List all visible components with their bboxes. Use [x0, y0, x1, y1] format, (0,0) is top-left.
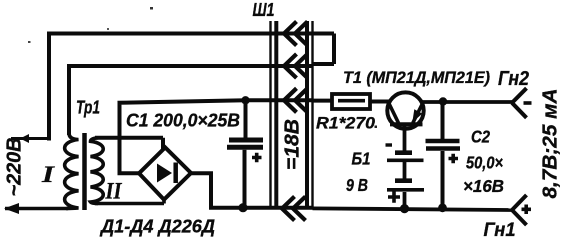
bridge rectifier D1-D4 diamond [139, 147, 191, 199]
node : junction dot C2 bottom [438, 203, 447, 212]
resistor R1 inner bar [338, 99, 365, 103]
connector Sh1 left thin line [269, 21, 271, 207]
capacitor C1 bottom lead [243, 150, 247, 208]
wire : mains top arrowhead [20, 134, 29, 143]
transistor T1 emitter diagonal with arrow [413, 103, 423, 124]
transistor T1 base bar [390, 122, 423, 126]
wire : bottom rail from connector to jack Gn1 [313, 208, 513, 210]
wire : R1 to transistor collector [370, 100, 389, 104]
connector Sh1 right thin line [311, 21, 313, 207]
battery B1 plus sign [388, 191, 400, 203]
connector Sh1 pin arrow row4 [282, 197, 306, 221]
svg-text:С1 200,0×25В: С1 200,0×25В [126, 111, 240, 131]
capacitor C2 bottom lead [441, 151, 445, 209]
wire : mains bottom arrowhead [4, 203, 19, 214]
transistor T1 circle [387, 92, 423, 128]
wire : bridge bottom corner stub [162, 198, 166, 204]
battery B1 cell2 long plate [387, 188, 424, 192]
wire : mains top lead with arrow to corner [11, 137, 49, 140]
svg-text:~220В: ~220В [4, 138, 26, 197]
wire : bridge left corner feed [118, 171, 141, 175]
node : junction dot C2 top [439, 97, 447, 105]
speck [107, 28, 109, 30]
wire : jumper loop joining pins 1 and 2 on plug side [313, 34, 335, 65]
wire : bridge minus riser x119.5 and top rail row3 [118, 100, 314, 175]
svg-text:×16В: ×16В [463, 176, 504, 196]
capacitor C2 plates [426, 139, 460, 144]
wire : secondary bottom to bridge AC bottom [95, 202, 164, 206]
transistor T1 base lead down [403, 126, 407, 151]
jack Gn1 socket symbol [512, 195, 527, 225]
capacitor C1 top lead [244, 100, 248, 138]
wire : secondary top to bridge AC top [95, 138, 163, 150]
speck [28, 41, 31, 43]
svg-text:Ш1: Ш1 [253, 0, 275, 20]
svg-text:Гн2: Гн2 [498, 68, 529, 90]
wire : bridge plus output to bottom rail [190, 171, 313, 207]
transistor T1 collector diagonal [389, 103, 399, 124]
jack Gn1 plus mark [522, 205, 532, 215]
wire : row3 from connector to R1 [313, 99, 333, 103]
transformer Tr1 core [82, 133, 87, 210]
svg-text:Тр1: Тр1 [76, 97, 100, 118]
svg-text:R1*270: R1*270 [316, 114, 376, 133]
svg-text:50,0×: 50,0× [466, 153, 503, 173]
capacitor C1 plus sign [252, 153, 262, 162]
battery B1 minus sign [386, 143, 393, 146]
capacitor C2 top lead [441, 101, 445, 139]
svg-text:Д1-Д4 Д226Д: Д1-Д4 Д226Д [99, 216, 215, 237]
speck [150, 7, 153, 10]
battery B1 cell1 long plate [387, 159, 424, 163]
connector Sh1 pin arrow row1 [284, 22, 308, 46]
connector Sh1 left thick line [274, 21, 278, 207]
svg-text:=18В: =18В [282, 119, 304, 170]
wire : row2 horizontal from riser x69 to connector [67, 64, 313, 68]
capacitor C1 plates [229, 138, 263, 143]
wire : vertical riser x69 down to primary top [67, 64, 71, 135]
diode symbol inside bridge [157, 164, 172, 183]
svg-text:Гн1: Гн1 [484, 220, 516, 241]
svg-text:С2: С2 [471, 127, 490, 147]
capacitor C2 plus sign [449, 154, 459, 163]
battery B1 link [403, 162, 407, 179]
svg-text:Т1 (МП21Д,МП21Е): Т1 (МП21Д,МП21Е) [343, 68, 490, 87]
period after R1 value [375, 126, 378, 129]
connector Sh1 right thick line [305, 21, 309, 207]
svg-text:I: I [41, 162, 56, 187]
node : junction dot C1 bottom [238, 203, 247, 212]
svg-text:Б1: Б1 [352, 149, 371, 169]
svg-text:8,7В;25 мА: 8,7В;25 мА [540, 88, 561, 198]
resistor R1 body [332, 94, 370, 109]
transformer Tr1 secondary winding II [91, 138, 104, 204]
jack Gn2 socket symbol [512, 88, 527, 118]
wire : vertical riser x49 from mains to row1 [47, 34, 51, 141]
svg-text:9 В: 9 В [346, 175, 368, 195]
transformer Tr1 primary winding I [65, 133, 79, 209]
node : junction dot battery bottom [400, 204, 409, 213]
battery B1 cell1 short plate [395, 150, 412, 155]
wire : row1 horizontal to connector [47, 32, 313, 36]
connector Sh1 pin arrow row2 [284, 54, 308, 78]
battery B1 cell2 short plate [395, 178, 412, 183]
connector Sh1 pin arrow row3 [284, 88, 308, 112]
jack Gn2 minus mark [524, 101, 532, 105]
wire : emitter to output jack Gn2 [422, 100, 512, 104]
battery B1 bottom lead [403, 192, 407, 209]
wire : mains bottom lead with arrow to primary bottom [5, 207, 68, 211]
node : junction dot C1 top [241, 96, 249, 104]
svg-text:II: II [105, 179, 123, 204]
